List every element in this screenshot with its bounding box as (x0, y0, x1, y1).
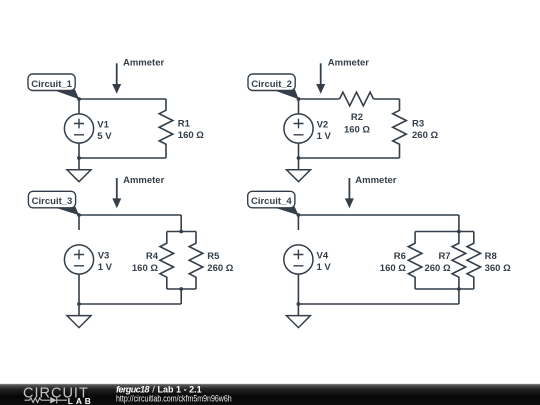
value label R1 160 Ω (178, 118, 204, 141)
svg-text:1 V: 1 V (317, 131, 332, 142)
net label Circuit_2 (248, 74, 299, 99)
node (V1 top junction) (77, 97, 81, 101)
svg-text:360 Ω: 360 Ω (485, 263, 511, 274)
voltage source V1 (64, 99, 93, 158)
net label Circuit_4 (248, 191, 299, 215)
ground (Circuit_4) (286, 304, 310, 328)
node (V3 top junction) (77, 213, 81, 217)
wire (374, 98, 400, 100)
svg-text:LAB: LAB (68, 396, 94, 405)
svg-text:Ammeter: Ammeter (123, 58, 164, 69)
value label R5 260 Ω (207, 251, 233, 274)
svg-text:R6: R6 (394, 251, 406, 262)
resistor R6 (408, 232, 422, 290)
footer title text (116, 384, 202, 394)
wire (79, 98, 166, 100)
value label R4 160 Ω (132, 251, 159, 274)
resistor R3 (393, 99, 407, 158)
svg-text:R5: R5 (207, 251, 220, 262)
wire (299, 157, 400, 159)
svg-text:http://circuitlab.com/ckfm5m9n: http://circuitlab.com/ckfm5m9n96w6h (116, 393, 232, 404)
svg-text:160 Ω: 160 Ω (380, 263, 406, 274)
value label R3 260 Ω (412, 118, 438, 141)
svg-text:260 Ω: 260 Ω (207, 263, 233, 274)
ground (Circuit_2) (287, 158, 311, 182)
resistor R1 (159, 99, 173, 158)
svg-text:R2: R2 (351, 112, 363, 123)
ground (Circuit_1) (67, 158, 91, 182)
footer bar (0, 384, 540, 405)
resistor R4 (160, 232, 174, 290)
net label Circuit_1 (28, 74, 79, 99)
svg-text:R7: R7 (438, 251, 450, 262)
svg-text:V3: V3 (98, 250, 110, 261)
wire (298, 214, 459, 216)
resistor R7 (452, 232, 466, 290)
net label Circuit_3 (28, 191, 79, 215)
wire (415, 288, 474, 290)
ground (Circuit_3) (67, 304, 91, 328)
svg-text:Ammeter: Ammeter (355, 175, 396, 186)
svg-text:Circuit_4: Circuit_4 (251, 196, 292, 207)
svg-text:R8: R8 (485, 251, 497, 262)
svg-text:Circuit_2: Circuit_2 (251, 79, 292, 90)
svg-text:V4: V4 (317, 250, 329, 261)
wire (79, 157, 166, 159)
svg-text:Ammeter: Ammeter (328, 58, 369, 69)
wire (79, 303, 181, 305)
svg-text:260 Ω: 260 Ω (412, 130, 438, 141)
svg-text:R3: R3 (412, 118, 424, 129)
ammeter arrow (Circuit_4) (345, 178, 354, 208)
node (V2 bottom junction) (297, 156, 301, 160)
node (V2 top junction) (297, 97, 301, 101)
svg-text:R1: R1 (178, 118, 191, 129)
wire (167, 231, 196, 233)
wire (180, 289, 182, 304)
wire (79, 214, 181, 216)
svg-text:V1: V1 (97, 119, 109, 130)
CircuitLab logo (23, 385, 94, 405)
node (parallel bottom) (457, 287, 461, 291)
svg-text:1 V: 1 V (317, 262, 332, 273)
voltage source V3 (64, 215, 93, 304)
wire (167, 288, 196, 290)
svg-text:1 V: 1 V (98, 262, 113, 273)
value label R6 160 Ω (380, 251, 406, 274)
wire (180, 215, 182, 232)
node (V3 bottom junction) (77, 302, 81, 306)
svg-text:160 Ω: 160 Ω (178, 130, 204, 141)
resistor R8 (467, 232, 481, 290)
value label R8 360 Ω (485, 251, 511, 274)
ammeter arrow (Circuit_2) (316, 63, 325, 94)
node (R4/R5 bottom) (179, 287, 183, 291)
svg-text:160 Ω: 160 Ω (344, 125, 370, 136)
value label V4 1 V (317, 250, 332, 273)
wire (299, 98, 340, 100)
node (parallel top) (457, 230, 461, 234)
svg-text:160 Ω: 160 Ω (132, 263, 158, 274)
svg-text:V2: V2 (317, 119, 329, 130)
svg-text:Circuit_1: Circuit_1 (31, 79, 72, 90)
node (R4/R5 top) (179, 230, 183, 234)
svg-text:5 V: 5 V (97, 131, 112, 142)
resistor R2 (340, 92, 374, 106)
wire (458, 289, 460, 304)
node (V4 top junction) (297, 213, 301, 217)
ammeter arrow (Circuit_3) (112, 178, 121, 208)
value label V2 1 V (317, 119, 332, 142)
svg-text:Circuit_3: Circuit_3 (32, 196, 73, 207)
voltage source V2 (284, 99, 313, 158)
value label R2 160 Ω (344, 112, 370, 136)
value label R7 260 Ω (424, 251, 450, 274)
value label V1 5 V (97, 119, 112, 142)
ammeter arrow (Circuit_1) (112, 63, 121, 94)
wire (458, 215, 460, 232)
node (V1 bottom junction) (77, 156, 81, 160)
voltage source V4 (284, 215, 313, 304)
resistor R5 (189, 232, 203, 290)
svg-text:Ammeter: Ammeter (123, 175, 164, 186)
wire (415, 231, 474, 233)
value label V3 1 V (98, 250, 113, 273)
wire (298, 303, 459, 305)
svg-text:260 Ω: 260 Ω (424, 263, 450, 274)
node (V4 bottom junction) (297, 302, 301, 306)
svg-text:R4: R4 (146, 251, 159, 262)
